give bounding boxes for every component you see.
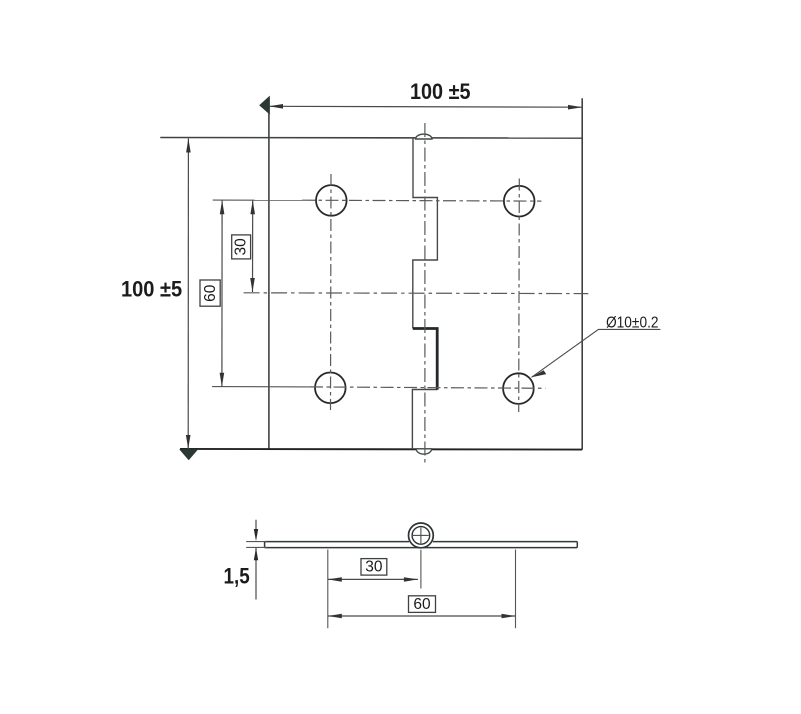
thickness dimension: lower arrowhead (up) bbox=[254, 548, 258, 560]
svg-text:100 ±5: 100 ±5 bbox=[410, 79, 471, 104]
side dimension 60: line bbox=[328, 615, 516, 617]
top pin ellipse bbox=[416, 134, 432, 139]
knuckle thick segment bbox=[413, 329, 437, 390]
svg-text:60: 60 bbox=[413, 596, 431, 613]
dimension 30 vertical: label box bbox=[232, 235, 251, 259]
dimension 30 vertical: bottom arrowhead bbox=[250, 278, 255, 292]
svg-text:100 ±5: 100 ±5 bbox=[121, 277, 182, 302]
hole diameter label leader arrowhead bbox=[532, 370, 547, 377]
side dimension 30: extension line left bbox=[327, 550, 329, 629]
hinge plate outline (top view) bbox=[160, 98, 582, 450]
hole column centerline left bbox=[330, 174, 333, 410]
dimension 60 vertical: line bbox=[221, 200, 223, 387]
thickness extension ticks bbox=[246, 542, 267, 548]
side dimension 60: extension line right bbox=[515, 550, 517, 629]
side dimension 60: label box bbox=[409, 596, 436, 613]
thickness dimension 1,5: line bbox=[255, 520, 257, 600]
middle horizontal centerline bbox=[244, 292, 589, 295]
hinge vertical centerline bbox=[424, 123, 426, 466]
thickness dimension: upper arrowhead (down) bbox=[254, 529, 258, 541]
knuckle joint castellated line bbox=[412, 138, 437, 449]
svg-text:60: 60 bbox=[202, 284, 219, 302]
dimension 100±5 horizontal: right arrowhead bbox=[568, 105, 582, 110]
hole bottom-right bbox=[503, 373, 534, 404]
hole bottom-left bbox=[315, 373, 346, 404]
dimension 30 vertical: line bbox=[252, 200, 254, 292]
side dimension 30: left arrowhead bbox=[328, 577, 342, 582]
big filled triangle left bbox=[259, 96, 270, 115]
hole top-left bbox=[316, 185, 347, 216]
dimension 30 vertical: top arrowhead bbox=[250, 200, 255, 214]
svg-text:30: 30 bbox=[233, 238, 250, 256]
side dimension 30: line bbox=[328, 578, 418, 580]
svg-text:1,5: 1,5 bbox=[224, 564, 250, 589]
dimension 100±5 vertical: line bbox=[187, 139, 189, 450]
side dimension 30: right arrowhead bbox=[404, 577, 418, 582]
dimension 100±5 horizontal: line bbox=[269, 105, 582, 108]
dimension 100±5 vertical: top arrowhead bbox=[186, 139, 191, 153]
svg-text:Ø10±0.2: Ø10±0.2 bbox=[606, 315, 659, 332]
side dimension 60: right arrowhead bbox=[502, 614, 516, 619]
hole row centerline top bbox=[213, 199, 302, 201]
hole diameter label leader line bbox=[532, 329, 661, 377]
dimension 100±5 horizontal: left arrowhead bbox=[269, 104, 283, 109]
hole row centerline bottom bbox=[212, 386, 310, 388]
bottom pin ellipse bbox=[416, 449, 432, 454]
hole column centerline right bbox=[518, 179, 521, 413]
dimension 60 vertical: top arrowhead bbox=[220, 200, 225, 214]
dimension 60 vertical: label box bbox=[200, 280, 220, 306]
side dimension 30: label box bbox=[361, 559, 387, 576]
barrel centerline cross bbox=[413, 528, 429, 544]
big filled triangle bottom bbox=[179, 449, 198, 460]
knuckle pin inner circle (side view) bbox=[412, 527, 430, 545]
dimension 60 vertical: bottom arrowhead bbox=[220, 373, 225, 387]
hole top-right bbox=[504, 186, 535, 217]
svg-text:30: 30 bbox=[365, 559, 383, 576]
knuckle barrel outer circle (side view) bbox=[409, 523, 434, 548]
barrel centerline extension below bbox=[420, 550, 422, 589]
side dimension 60: left arrowhead bbox=[328, 614, 342, 619]
side view leaf bar bbox=[265, 542, 578, 548]
dimension 100±5 vertical: bottom arrowhead bbox=[186, 435, 191, 449]
